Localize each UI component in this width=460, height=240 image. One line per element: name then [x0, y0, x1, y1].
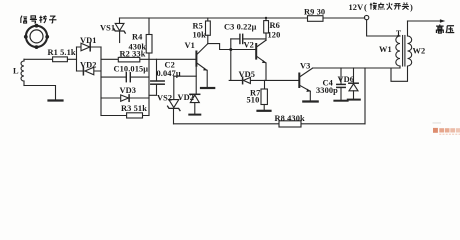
svg-text:R4: R4 [132, 33, 143, 42]
CJK text: 接点火开关 (to ignition switch) [370, 2, 409, 9]
capacitor C4 [337, 68, 345, 100]
svg-text:12V: 12V [349, 3, 364, 12]
ground (V3 emitter) [303, 100, 317, 102]
wire VD2 branch [77, 70, 102, 72]
capacitor C3 [231, 34, 266, 43]
resistor R2 [118, 57, 140, 62]
resistor R4 [146, 18, 152, 59]
svg-text:V1: V1 [185, 41, 195, 50]
transistor V2 [256, 40, 266, 80]
svg-text:R2 33k: R2 33k [120, 50, 146, 59]
capacitor C2 [149, 59, 164, 95]
svg-text:R5: R5 [193, 22, 203, 31]
wire L top to R1 [24, 58, 77, 60]
svg-text:R9 30: R9 30 [304, 8, 325, 17]
wire 12V feed down to W1 [367, 20, 400, 36]
svg-text:VD6: VD6 [338, 75, 355, 84]
wire bottom return line [174, 123, 366, 125]
diode VD6 [349, 68, 358, 99]
svg-text:120: 120 [268, 31, 281, 40]
watermark logo bottom right [433, 122, 460, 135]
diode VD2 (clamp) [190, 94, 200, 114]
wire collector line to W1 [313, 67, 401, 69]
svg-text:T: T [396, 29, 401, 38]
wire L bottom to ground [24, 86, 56, 100]
svg-text:W1: W1 [379, 45, 392, 54]
ignition coil W1 primary [396, 36, 400, 68]
ground (C4) [334, 100, 347, 102]
capacitor C1 [101, 73, 149, 82]
resistor R1 [53, 57, 68, 62]
ground (VD2 clamp) [189, 114, 200, 116]
svg-text:V2: V2 [244, 41, 254, 50]
ground (V1 emitter) [201, 87, 214, 89]
resistor R5 [206, 18, 211, 44]
svg-text:0.047μ: 0.047μ [157, 69, 181, 78]
svg-text:VD2: VD2 [178, 93, 195, 102]
wire right vertical to R8 line [364, 68, 366, 124]
diode VD5 [243, 77, 251, 84]
resistor R7 [261, 80, 267, 110]
ground (R7) [258, 110, 271, 112]
CJK text: 高压 (high voltage) [436, 25, 454, 34]
node: VD1/VD2 bridge left vertical [76, 47, 78, 71]
high voltage output arrow [408, 19, 446, 23]
resistor R8 [279, 121, 301, 127]
wire VD5/base line [229, 79, 299, 81]
wire VD1 branch [77, 46, 102, 48]
svg-text:3300p: 3300p [316, 86, 338, 95]
svg-text:VD2: VD2 [80, 61, 97, 70]
clamp branch vertical from V1 base [195, 66, 197, 95]
svg-text:): ) [410, 3, 413, 12]
diode VD1 [81, 43, 90, 51]
signal rotor symbol [24, 24, 49, 49]
zener VS2 [168, 100, 180, 124]
svg-text:L: L [13, 67, 19, 76]
svg-text:VD3: VD3 [120, 86, 137, 95]
wire V1 collector to V2 base [208, 44, 256, 50]
node A rail (vertical) [100, 47, 102, 116]
svg-text:R6: R6 [270, 21, 280, 30]
transistor V3 [299, 68, 312, 101]
resistor R3 [101, 113, 149, 118]
diode VD3 [101, 95, 149, 101]
svg-text:R8 430k: R8 430k [275, 114, 305, 123]
node X junction dot [229, 48, 232, 51]
svg-text:V3: V3 [300, 62, 310, 71]
zener VS1 [114, 18, 125, 43]
svg-text:VS2: VS2 [157, 94, 172, 103]
svg-text:R3 51k: R3 51k [121, 104, 147, 113]
svg-text:(: ( [364, 3, 367, 12]
wire node X vertical [230, 39, 232, 81]
CJK text: 信号转子 (signal rotor) [21, 16, 57, 24]
svg-text:W2: W2 [413, 47, 426, 56]
svg-text:10k: 10k [193, 31, 207, 40]
transistor V1 [196, 44, 207, 87]
svg-text:R1 5.1k: R1 5.1k [48, 48, 76, 57]
svg-text:C10.015μ: C10.015μ [114, 65, 149, 74]
top supply rail [120, 17, 308, 19]
svg-text:VD5: VD5 [239, 70, 256, 79]
node B rail (vertical) [148, 59, 150, 115]
diode VD2 (bridge) [83, 67, 93, 75]
wire clamp top bar [174, 75, 196, 77]
wire main base line [101, 58, 196, 60]
ground (L) [49, 99, 63, 101]
resistor R6 [264, 17, 269, 40]
terminal 12V [364, 15, 368, 19]
ignition coil W2 secondary [391, 21, 412, 81]
svg-text:VS1: VS1 [100, 24, 115, 33]
inductor L (pickup coil) [21, 59, 24, 85]
svg-text:C3 0.22μ: C3 0.22μ [224, 23, 257, 32]
svg-text:510: 510 [247, 96, 260, 105]
resistor R9 [308, 16, 324, 22]
coil core T [403, 36, 405, 67]
ground (VD6) [348, 99, 360, 101]
svg-text:VD1: VD1 [80, 36, 97, 45]
